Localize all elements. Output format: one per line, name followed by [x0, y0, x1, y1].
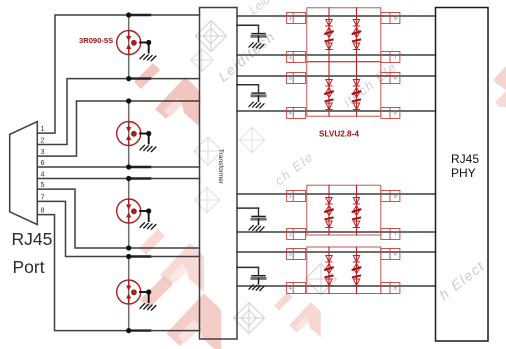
svg-text:8: 8	[41, 206, 45, 215]
capacitor C3	[249, 208, 265, 231]
TVS U2 body	[307, 62, 381, 116]
watermark seal glyph 2b	[191, 49, 214, 72]
watermark seal glyph 4	[233, 302, 264, 333]
wire overlap W7	[129, 255, 150, 257]
svg-text:8: 8	[394, 16, 397, 22]
svg-text:7: 7	[394, 55, 397, 61]
ground GDT D4	[140, 292, 156, 310]
svg-text:Transformer: Transformer	[217, 149, 224, 185]
wire pin5	[37, 189, 199, 248]
TVS U4 diode column B	[356, 247, 358, 294]
svg-text:itech Ele: itech Ele	[341, 59, 400, 110]
transformer T1	[200, 8, 238, 340]
watermark logo red 3	[140, 276, 221, 349]
junction dot	[126, 245, 131, 250]
wire sec2+	[237, 75, 436, 77]
svg-text:PHY: PHY	[451, 166, 476, 180]
IC RJ45 PHY	[436, 8, 489, 342]
junction dot	[126, 12, 131, 17]
capacitor C4	[249, 267, 265, 290]
svg-text:2: 2	[41, 136, 45, 145]
GDT D4	[117, 280, 141, 304]
GDT D1	[117, 31, 141, 55]
svg-text:4: 4	[289, 286, 292, 292]
TVS U1 pin 1 box	[287, 13, 306, 24]
TVS U4 pin 5 box	[381, 283, 400, 294]
capacitor C2	[249, 85, 265, 108]
svg-text:4: 4	[41, 170, 45, 179]
junction dot	[126, 176, 131, 181]
svg-text:3: 3	[41, 147, 45, 156]
svg-text:6: 6	[41, 158, 45, 167]
GDT D3 vertical wire	[128, 179, 130, 249]
TVS U1 pin 2 box	[287, 52, 306, 63]
TVS U3 pin 7 box	[381, 229, 400, 240]
svg-text:ch Ele: ch Ele	[272, 149, 317, 189]
GDT D3	[117, 199, 141, 223]
wire pin4	[37, 178, 199, 180]
GDT D4 vertical wire	[128, 257, 130, 331]
svg-text:1: 1	[41, 124, 45, 133]
wire sec2-	[237, 110, 436, 112]
svg-text:7: 7	[41, 193, 45, 202]
wire sec1+	[237, 15, 436, 17]
TVS U3 diode column A	[328, 185, 330, 235]
svg-text:SLVU2.8-4: SLVU2.8-4	[319, 130, 359, 139]
wire pin7	[37, 201, 199, 256]
svg-text:5: 5	[41, 180, 45, 189]
junction dot	[126, 76, 131, 81]
svg-text:2: 2	[289, 55, 292, 61]
svg-text:Port: Port	[13, 257, 45, 277]
wire pin2	[37, 79, 199, 145]
svg-text:6: 6	[394, 252, 397, 258]
TVS U3 pin 1 box	[287, 191, 306, 202]
TVS U3 diode column B	[356, 185, 358, 235]
TVS U2 pin 6 box	[381, 73, 400, 84]
watermark seal glyph 1	[195, 20, 226, 51]
TVS U3 pin 8 box	[381, 191, 400, 202]
GDT D1 vertical wire	[128, 15, 130, 79]
GDT D2 vertical wire	[128, 101, 130, 167]
svg-text:2: 2	[289, 232, 292, 238]
svg-text:5: 5	[394, 111, 397, 117]
watermark seal glyph 3	[194, 187, 219, 212]
wire sec1-	[237, 54, 436, 56]
ground GDT D3	[140, 211, 156, 229]
wire sec3-	[237, 231, 436, 233]
wire sec3+	[237, 193, 436, 195]
junction dot	[146, 289, 151, 294]
junction dot	[126, 98, 131, 103]
junction dot	[146, 208, 151, 213]
TVS U4 pin 4 box	[287, 283, 306, 294]
TVS U3 body	[307, 185, 381, 235]
svg-text:3R090-5S: 3R090-5S	[79, 36, 113, 45]
TVS U4 diode column A	[328, 247, 330, 294]
TVS U1 diode column A	[328, 8, 330, 62]
watermark seal glyph 6	[239, 127, 264, 152]
watermark logo red 4	[274, 292, 321, 337]
svg-text:1: 1	[289, 16, 292, 22]
TVS U2 diode column A	[328, 62, 330, 116]
svg-text:RJ45: RJ45	[451, 152, 479, 166]
wire overlap W5	[129, 177, 150, 179]
wire center tap 1	[237, 24, 259, 26]
connector J1 RJ45 port	[10, 122, 38, 225]
wire pin8	[37, 215, 199, 331]
watermark logo red 5 sliver	[493, 66, 506, 107]
wire overlap W8	[129, 329, 150, 331]
wire center tap 2	[237, 84, 259, 86]
junction dot	[126, 164, 131, 169]
wire center tap 3	[237, 207, 259, 209]
svg-text:6: 6	[394, 76, 397, 82]
wire pin3	[37, 101, 199, 156]
TVS U2 pin 5 box	[381, 108, 400, 119]
TVS U2 pin 3 box	[287, 73, 306, 84]
svg-text:4: 4	[289, 111, 292, 117]
wire pin1	[37, 15, 199, 133]
wire overlap W2	[129, 77, 150, 79]
TVS U1 diode column B	[356, 8, 358, 62]
TVS U1 body	[307, 8, 381, 62]
TVS U3 pin 2 box	[287, 229, 306, 240]
svg-text:RJ45: RJ45	[12, 229, 53, 249]
ground GDT D2	[140, 134, 156, 152]
ground GDT D1	[140, 43, 156, 61]
GDT D4 ground arm	[140, 291, 149, 293]
junction dot	[126, 328, 131, 333]
TVS U2 diode column B	[356, 62, 358, 116]
svg-text:3: 3	[289, 76, 292, 82]
GDT D3 ground arm	[140, 210, 149, 212]
capacitor C1	[249, 25, 265, 48]
svg-text:Leid: Leid	[246, 0, 273, 17]
TVS U2 pin 4 box	[287, 108, 306, 119]
TVS U4 body	[307, 247, 381, 294]
TVS U1 pin 7 box	[381, 52, 400, 63]
wire pin6	[37, 166, 199, 168]
svg-text:h Elect: h Elect	[436, 257, 488, 302]
GDT D1 ground arm	[140, 42, 149, 44]
junction dot	[126, 254, 131, 259]
wire sec4+	[237, 251, 436, 253]
TVS U1 pin 8 box	[381, 13, 400, 24]
watermark logo red 1	[134, 63, 199, 126]
svg-text:5: 5	[394, 286, 397, 292]
TVS U4 pin 6 box	[381, 249, 400, 260]
wire center tap 4	[237, 266, 259, 268]
watermark seal glyph 2	[194, 137, 222, 165]
wire sec4-	[237, 285, 436, 287]
watermark logo red 2	[139, 229, 204, 292]
junction dot	[146, 40, 151, 45]
watermark seal glyph 5	[305, 263, 336, 294]
GDT D2	[117, 122, 141, 146]
junction dot	[146, 131, 151, 136]
svg-text:8: 8	[394, 194, 397, 200]
svg-text:1: 1	[289, 194, 292, 200]
svg-text:7: 7	[394, 232, 397, 238]
TVS U4 pin 3 box	[287, 249, 306, 260]
wire overlap W1	[129, 14, 150, 16]
wire overlap W4	[129, 166, 150, 168]
svg-text:3: 3	[289, 252, 292, 258]
GDT D2 ground arm	[140, 133, 149, 135]
